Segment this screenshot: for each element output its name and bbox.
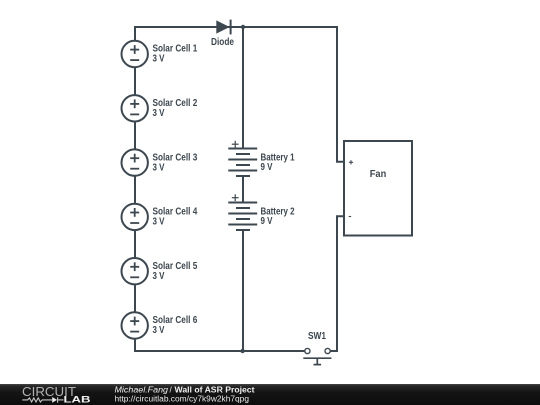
svg-text:3 V: 3 V [153,54,165,65]
footer bar [0,384,540,405]
wire switch left terminal to node B [243,350,305,352]
fan M1 box [344,141,412,236]
diode D1 [216,20,230,35]
fan pin - polarity mark [349,216,351,218]
label Solar Cell 3 value [153,152,198,173]
switch SW1 pushbutton [303,348,331,364]
solar cell V1 [122,41,148,67]
label Battery 2 value [261,207,295,228]
wire node B to bottom of solar cell column [135,339,243,351]
node B junction dot [240,349,244,353]
footer title text [115,385,255,403]
wire between Solar Cell 3 and Solar Cell 4 [134,176,136,204]
wire top from solar cell column to diode anode [135,27,243,41]
label Solar Cell 1 value [153,44,198,65]
label Solar Cell 6 value [153,315,198,336]
wire fan - terminal down to switch right terminal [330,216,344,351]
wire node A to fan + terminal [243,27,344,162]
battery B2 plus polarity mark [232,194,239,201]
svg-text:3 V: 3 V [153,108,165,119]
label Battery 1 value [261,153,295,174]
label Solar Cell 4 value [153,207,198,228]
wire between Solar Cell 5 and Solar Cell 6 [134,284,136,312]
solar cell V4 [122,204,148,230]
wire between Solar Cell 4 and Solar Cell 5 [134,230,136,258]
node A junction dot [241,25,245,29]
wire between Solar Cell 1 and Solar Cell 2 [134,67,136,95]
battery B2 [228,203,257,231]
svg-text:Michael.Fang: Michael.Fang [115,385,169,394]
svg-text:3 V: 3 V [153,217,165,228]
svg-text:3 V: 3 V [153,271,165,282]
svg-text:9 V: 9 V [261,162,273,173]
svg-text:SW1: SW1 [308,331,326,342]
svg-text:3 V: 3 V [153,325,165,336]
label Solar Cell 5 value [153,261,198,282]
wire Battery 1 negative to Battery 2 positive [242,176,244,203]
solar cell V5 [122,258,148,284]
svg-text:LAB: LAB [64,394,91,405]
battery B1 [228,149,257,177]
label Solar Cell 2 value [153,98,198,119]
svg-text:Wall of ASR Project: Wall of ASR Project [175,385,255,394]
solar cell V6 [122,312,148,338]
svg-text:9 V: 9 V [261,216,273,227]
wire between Solar Cell 2 and Solar Cell 3 [134,122,136,150]
battery B1 plus polarity mark [232,141,239,148]
footer logo squiggle [22,397,63,403]
svg-text:http://circuitlab.com/cy7k9w2k: http://circuitlab.com/cy7k9w2kh7qpg [115,395,250,404]
svg-text:3 V: 3 V [153,162,165,173]
wire Battery 2 negative down to node B [242,230,244,351]
wire node A down to Battery 1 positive plate [242,27,244,149]
svg-text:Diode: Diode [211,37,234,48]
solar cell V3 [122,149,148,175]
svg-text:Fan: Fan [370,168,387,180]
solar cell V2 [122,95,148,121]
fan pin + polarity mark [349,160,353,164]
